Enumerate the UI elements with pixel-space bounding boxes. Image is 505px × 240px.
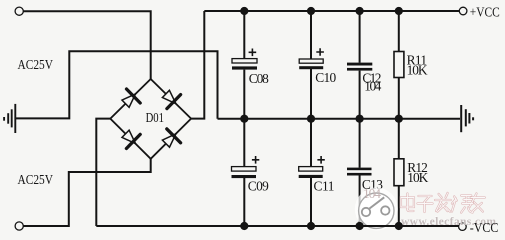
svg-text:C08: C08 [249, 71, 269, 86]
terminal AC top-left [15, 7, 23, 15]
junction dots top rail [240, 7, 403, 15]
wire bridge right vertex to +VCC rail [191, 11, 204, 119]
svg-text:C11: C11 [314, 178, 335, 193]
svg-text:104: 104 [363, 186, 381, 201]
capacitor C13 (ceramic 104) [347, 119, 383, 226]
wire bridge left vertex to -VCC rail [96, 119, 110, 226]
resistor R11 [394, 11, 428, 119]
svg-text:AC25V: AC25V [18, 173, 54, 188]
bridge rectifier D01 [110, 79, 191, 159]
svg-text:D01: D01 [146, 110, 164, 125]
capacitor C11 [299, 119, 335, 226]
diode D01-c (left-bottom edge, points to bottom) [122, 130, 140, 148]
node -VCC bottom rail [96, 225, 458, 227]
junction dots middle rail [240, 115, 403, 123]
terminal -VCC [459, 223, 467, 231]
capacitor C09 [232, 119, 270, 226]
wire center-tap: left ground up over bridge to middle rail [16, 51, 218, 118]
svg-text:C09: C09 [248, 178, 269, 193]
diode D01-d (bottom-right edge, points to right) [162, 129, 180, 147]
ground right [461, 105, 473, 132]
capacitor C12 (ceramic 104) [347, 11, 382, 119]
capacitor C10 [299, 11, 336, 119]
svg-text:104: 104 [364, 79, 381, 94]
junction dots bottom rail (over watermark) [345, 225, 459, 227]
wire AC top to bridge top [23, 11, 151, 79]
capacitor C08 [232, 11, 269, 119]
watermark text 电子发烧友 (approximated strokes) [401, 193, 485, 213]
svg-text:+VCC: +VCC [470, 4, 500, 19]
watermark text www.elecfans.com [401, 216, 497, 228]
resistor R12 [394, 119, 429, 226]
svg-text:10K: 10K [407, 170, 428, 185]
watermark logo circle [355, 188, 398, 231]
ground left [4, 104, 15, 133]
svg-text:AC25V: AC25V [18, 58, 54, 73]
diode D01-b (top-right edge, points to right) [162, 90, 180, 108]
node GND middle rail [218, 118, 461, 120]
terminal +VCC [459, 7, 467, 15]
diode D01-a (left-top edge, points to top) [122, 89, 140, 107]
svg-text:C10: C10 [315, 70, 336, 85]
node +VCC top rail [204, 10, 459, 12]
svg-text:-VCC: -VCC [470, 220, 499, 235]
svg-text:10K: 10K [407, 63, 428, 78]
wire AC bottom to bridge bottom [23, 159, 151, 226]
terminal AC bottom-left [15, 222, 23, 230]
